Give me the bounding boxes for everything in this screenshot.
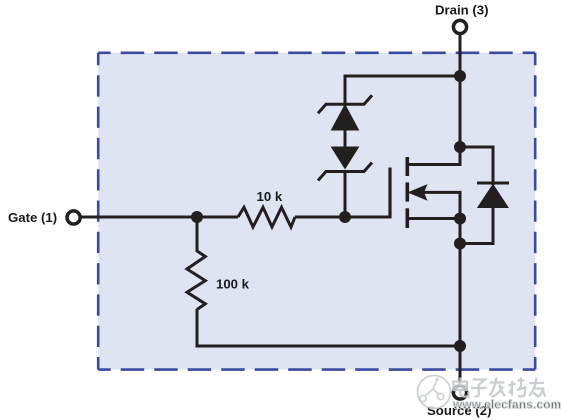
watermark hanzi dian (454, 378, 469, 397)
diode D3 triangle (478, 185, 508, 208)
node drain-diode junction dot (454, 141, 466, 153)
dashed boundary box top edge (98, 51, 535, 54)
node source-rail junction dot (454, 340, 466, 352)
transistor Q1 channel dash bottom (405, 208, 409, 228)
wire 100k bottom stem and bottom rail (197, 309, 460, 346)
transistor Q1 gate bar (388, 168, 391, 218)
zener diode D1 cathode bar (318, 95, 372, 113)
terminal Source (2) (453, 386, 466, 399)
transistor Q1 channel dash top (405, 157, 409, 176)
svg-text:Drain (3): Drain (3) (435, 3, 489, 18)
wire zener top stem (344, 75, 347, 107)
watermark hanzi fa (490, 378, 506, 398)
wire gate lead left (80, 216, 238, 219)
node source-diode junction dot (454, 238, 466, 250)
wire zener bottom stem (344, 170, 347, 217)
node gate junction dot (191, 211, 203, 223)
transistor Q1 channel dash middle (405, 182, 409, 201)
wire source vertical (459, 219, 462, 388)
node source lead junction dot (454, 213, 466, 225)
watermark hanzi shao (509, 378, 526, 397)
svg-text:Gate (1): Gate (1) (8, 210, 57, 225)
svg-text:100 k: 100 k (216, 277, 250, 292)
resistor R2 100 k (187, 251, 205, 310)
zener diode D2 cathode bar (318, 163, 372, 181)
label Gate (1) (8, 210, 57, 225)
zener diode D2 triangle (332, 147, 359, 169)
svg-text:10 k: 10 k (257, 189, 283, 204)
wire drain vertical (407, 35, 460, 165)
wire zener middle connector (344, 129, 347, 148)
node zener-gate junction dot (339, 211, 351, 223)
label 100 k (216, 277, 250, 292)
label Drain (3) (435, 3, 489, 18)
transistor Q1 source lead (407, 217, 460, 220)
transistor Q1 body arrow head (409, 185, 427, 200)
dashed boundary box fill (98, 53, 535, 370)
terminal Drain (3) (453, 20, 466, 33)
dashed boundary box right edge (534, 53, 537, 370)
wire body diode top branch (460, 147, 493, 185)
wire resistor R1 to gate bar (295, 216, 392, 219)
transistor Q1 body arrow line (423, 192, 461, 218)
watermark logo circle (418, 376, 451, 409)
zener diode D1 triangle (332, 105, 359, 130)
terminal Gate (1) (67, 211, 80, 224)
node drain-zener junction dot (454, 70, 466, 82)
watermark hanzi zi (471, 380, 487, 397)
watermark text elecfans url (452, 398, 561, 412)
diode D3 cathode bar (477, 182, 509, 185)
wire 100k top stem (196, 217, 199, 252)
svg-text:www.elecfans.com: www.elecfans.com (452, 398, 561, 412)
dashed boundary box left edge (97, 53, 100, 370)
dashed boundary box bottom edge (98, 368, 535, 371)
watermark hanzi you (529, 378, 546, 397)
label 10 k (257, 189, 283, 204)
wire top rail zener to drain (345, 75, 460, 78)
resistor R1 10 k (238, 207, 295, 227)
wire body diode bottom branch (460, 205, 493, 244)
label Source (2) (427, 403, 492, 418)
